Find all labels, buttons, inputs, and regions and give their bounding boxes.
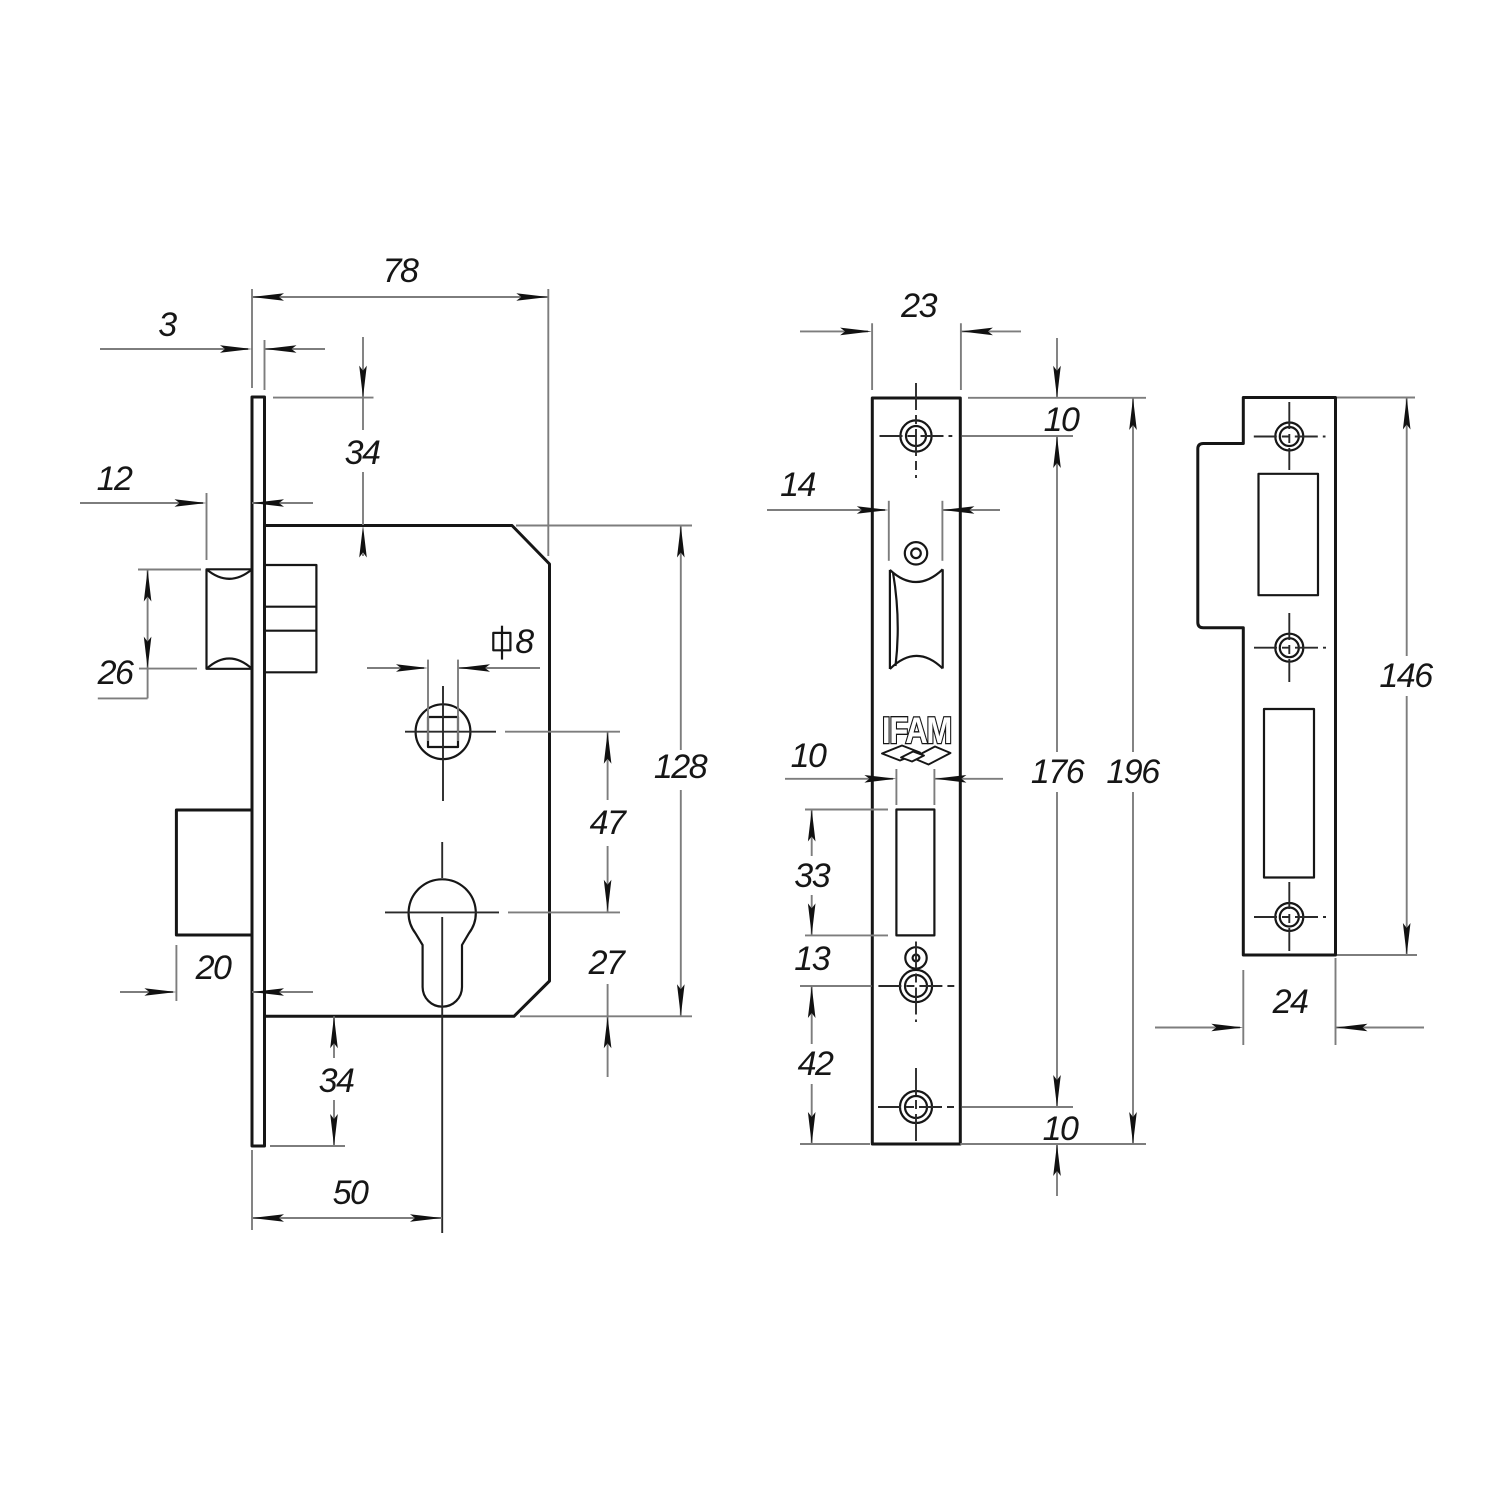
svg-text:146: 146 [1379, 657, 1433, 695]
dimension 20 (deadbolt protrusion) [120, 945, 313, 1001]
svg-text:14: 14 [780, 466, 815, 504]
dimension 34 (bottom margin) [270, 1016, 354, 1146]
dimension 26 (latch height) [97, 570, 201, 699]
dimension 10 (deadbolt cutout width) [785, 737, 1003, 805]
strike middle screw hole [1275, 634, 1303, 662]
spindle follower hole (8mm square in circle) [416, 704, 471, 759]
svg-text:196: 196 [1106, 753, 1160, 791]
svg-text:42: 42 [798, 1045, 834, 1083]
lock body faceplate (side view) [252, 397, 265, 1146]
bottom screw hole [900, 1091, 932, 1123]
spindle centerlines [442, 686, 444, 801]
strike top screw centerlines [1288, 402, 1290, 470]
svg-text:78: 78 [383, 252, 419, 290]
svg-text:34: 34 [345, 434, 380, 472]
dimension 42 [798, 986, 870, 1144]
dimension 10 (bottom right) [960, 1107, 1146, 1196]
latch bolt head [207, 569, 253, 669]
dimension 128 (case height) [516, 526, 708, 1017]
svg-text:33: 33 [794, 857, 830, 895]
svg-text:IFAM: IFAM [882, 710, 951, 751]
dimension 34 (top margin) [273, 337, 380, 558]
top screw hole [900, 420, 931, 451]
svg-text:26: 26 [97, 654, 134, 692]
dimension 12 (latch protrusion) [80, 460, 313, 560]
dimension 23 (faceplate width) [800, 287, 1021, 390]
svg-text:34: 34 [319, 1062, 354, 1100]
svg-text:128: 128 [654, 748, 708, 786]
dimension 33 (deadbolt cutout height) [794, 810, 888, 936]
dimension 50 (backset) [252, 1150, 442, 1230]
svg-text:176: 176 [1031, 753, 1085, 791]
svg-text:24: 24 [1272, 983, 1308, 1021]
dimension 196 (faceplate height) [1106, 398, 1160, 1144]
svg-text:47: 47 [590, 804, 627, 842]
strike bottom screw centerlines [1288, 882, 1290, 951]
strike top screw hole [1275, 423, 1303, 451]
lock case outline with chamfered corners [265, 526, 550, 1017]
dimension 13 [794, 940, 871, 986]
svg-text:10: 10 [791, 737, 827, 775]
dimension 176 [1031, 436, 1085, 1107]
dimension 146 (strike height) [1337, 398, 1433, 956]
strike latch cutout [1259, 474, 1319, 595]
IFAM logo [882, 710, 951, 765]
strike middle screw centerlines [1288, 613, 1290, 682]
strike plate outline with side tab [1198, 398, 1336, 956]
dimension 14 (latch cutout width) [767, 466, 1000, 561]
svg-text:8: 8 [515, 623, 534, 661]
middle screw centerlines [915, 942, 917, 1023]
dimension 78 [252, 252, 548, 556]
dimension 27 (cylinder to case bottom) [588, 944, 626, 1077]
svg-text:10: 10 [1043, 1110, 1079, 1148]
middle screw hole [900, 970, 932, 1002]
strike bottom screw hole [1275, 903, 1303, 931]
latch cutout with latch face [890, 569, 943, 669]
dimension square-8 (spindle) [367, 623, 540, 741]
svg-text:12: 12 [97, 460, 133, 498]
adjusting hole [905, 542, 927, 564]
svg-text:50: 50 [333, 1174, 369, 1212]
dimension 10 (top right) [962, 338, 1146, 439]
deadbolt [176, 810, 252, 935]
faceplate front view [872, 398, 960, 1144]
euro cylinder hole [409, 879, 476, 1006]
dimension 3 (faceplate thickness) [100, 306, 325, 390]
small pin hole [905, 947, 926, 968]
dimension 24 (strike width) [1155, 958, 1424, 1045]
svg-text:13: 13 [794, 940, 830, 978]
dimension 47 (spindle to cylinder) [590, 732, 627, 912]
cylinder centerlines [441, 842, 443, 878]
svg-text:23: 23 [900, 287, 937, 325]
deadbolt cutout [896, 810, 934, 936]
svg-text:10: 10 [1044, 401, 1080, 439]
svg-text:3: 3 [158, 306, 177, 344]
top screw hole centerlines [915, 383, 917, 478]
latch bolt tail [265, 565, 317, 672]
svg-text:27: 27 [588, 944, 626, 982]
bottom screw centerlines [915, 1068, 917, 1143]
strike deadbolt cutout [1264, 709, 1314, 878]
svg-text:20: 20 [195, 949, 232, 987]
